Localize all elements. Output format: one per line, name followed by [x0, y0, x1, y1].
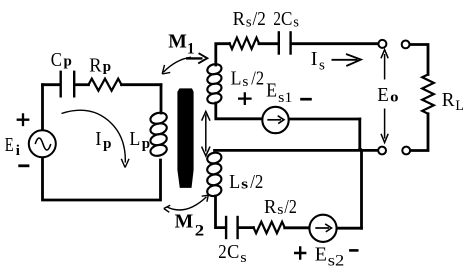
- svg-text:C: C: [51, 49, 62, 71]
- svg-text:s1: s1: [278, 90, 292, 106]
- svg-text:L: L: [231, 67, 242, 89]
- svg-text:2: 2: [195, 223, 205, 240]
- svg-text:R: R: [89, 55, 102, 77]
- svg-text:/2: /2: [284, 196, 296, 218]
- svg-text:1: 1: [187, 41, 195, 58]
- svg-text:s: s: [277, 202, 283, 218]
- svg-text:p: p: [142, 136, 150, 152]
- svg-text:L: L: [129, 128, 140, 150]
- svg-text:s: s: [246, 15, 252, 31]
- svg-text:/2: /2: [250, 171, 263, 193]
- svg-text:s: s: [240, 250, 247, 266]
- svg-text:E: E: [5, 134, 14, 156]
- svg-text:E: E: [377, 84, 389, 106]
- svg-text:R: R: [442, 89, 455, 111]
- svg-text:s: s: [293, 15, 299, 31]
- svg-text:2: 2: [218, 241, 226, 263]
- svg-text:/2: /2: [251, 67, 264, 89]
- svg-text:s2: s2: [328, 253, 345, 270]
- svg-text:I: I: [311, 48, 318, 70]
- svg-text:C: C: [281, 8, 292, 30]
- svg-text:E: E: [266, 79, 277, 101]
- svg-text:R: R: [233, 8, 246, 30]
- svg-text:L: L: [455, 98, 464, 114]
- svg-text:/2: /2: [253, 8, 266, 30]
- svg-text:o: o: [390, 90, 398, 106]
- svg-text:s: s: [241, 176, 248, 192]
- svg-text:s: s: [242, 74, 248, 90]
- svg-text:R: R: [264, 196, 277, 218]
- svg-text:p: p: [103, 59, 111, 75]
- svg-text:M: M: [175, 211, 194, 233]
- svg-text:s: s: [319, 58, 325, 74]
- svg-text:2: 2: [273, 8, 281, 30]
- svg-text:p: p: [103, 136, 111, 152]
- svg-text:i: i: [16, 143, 20, 159]
- svg-text:M: M: [168, 31, 187, 53]
- svg-text:C: C: [227, 241, 239, 263]
- svg-text:E: E: [315, 243, 327, 265]
- svg-text:L: L: [229, 171, 240, 193]
- svg-text:p: p: [64, 53, 72, 69]
- svg-text:I: I: [95, 128, 101, 150]
